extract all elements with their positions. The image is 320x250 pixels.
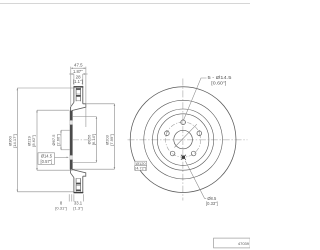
svg-text:[0.33"]: [0.33"] bbox=[206, 201, 218, 206]
svg-text:5 - Ø14.5: 5 - Ø14.5 bbox=[208, 75, 233, 80]
svg-text:[1.1"]: [1.1"] bbox=[73, 79, 83, 84]
svg-text:[0.60"]: [0.60"] bbox=[211, 81, 226, 86]
svg-text:[14.17"]: [14.17"] bbox=[12, 134, 17, 148]
svg-text:[1.3"]: [1.3"] bbox=[73, 205, 82, 210]
svg-text:[0.31"]: [0.31"] bbox=[55, 205, 66, 210]
svg-text:[7.99"]: [7.99"] bbox=[109, 134, 114, 145]
svg-text:[6.14"]: [6.14"] bbox=[91, 134, 96, 145]
svg-text:[8.62"]: [8.62"] bbox=[31, 135, 36, 146]
svg-text:[4.72"]: [4.72"] bbox=[135, 167, 146, 171]
svg-text:[0.57"]: [0.57"] bbox=[41, 159, 53, 164]
svg-text:Ø120: Ø120 bbox=[136, 161, 146, 166]
svg-text:47039: 47039 bbox=[238, 241, 250, 246]
svg-text:1.87": 1.87" bbox=[73, 69, 83, 74]
svg-text:[2.66"]: [2.66"] bbox=[55, 134, 60, 145]
svg-text:47.5: 47.5 bbox=[74, 63, 83, 68]
